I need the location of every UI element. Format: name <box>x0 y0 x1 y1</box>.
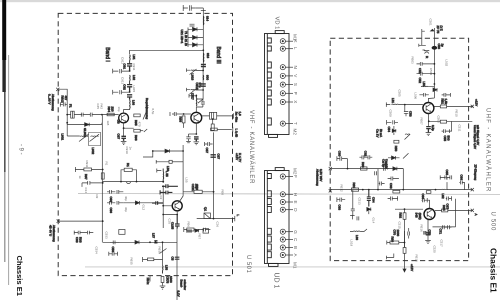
feedthrough cap dark <box>432 46 438 50</box>
capacitor C37 dark on riser <box>211 155 216 157</box>
pin F <box>280 174 285 179</box>
terminal osc exit T-bar <box>234 216 236 221</box>
terminal x abstimm2 <box>57 220 60 223</box>
pin A <box>280 252 285 257</box>
svg-text:T: T <box>293 122 298 125</box>
comp row161 <box>169 160 172 163</box>
junction T1 emitter <box>123 127 125 129</box>
svg-text:U 501: U 501 <box>245 255 251 273</box>
capacitor C60 <box>337 156 348 168</box>
svg-text:0,5p: 0,5p <box>431 125 435 131</box>
capacitor C44u T-bar <box>387 120 398 125</box>
svg-text:C913: C913 <box>121 77 125 85</box>
pin B <box>280 245 285 250</box>
capacitor C2el <box>186 134 190 141</box>
pin E <box>280 199 285 204</box>
T-bar R51 <box>143 257 163 262</box>
capacitor C103 thick <box>201 65 206 67</box>
scan top edge shadow <box>0 0 500 2</box>
svg-text:C72: C72 <box>428 230 432 236</box>
svg-text:+12V: +12V <box>475 99 479 106</box>
wire entry to box <box>67 114 82 116</box>
resistor R5e vert <box>403 248 406 254</box>
junction rail a <box>102 169 104 171</box>
svg-text:9,1V: 9,1V <box>177 291 181 297</box>
svg-text:Chassis E1: Chassis E1 <box>489 248 499 293</box>
capacitor above tank <box>189 94 196 98</box>
screen box L91 <box>89 133 101 146</box>
svg-text:C36: C36 <box>216 222 220 228</box>
svg-text:R510: R510 <box>455 110 459 118</box>
capacitor C52 pair lower <box>109 252 118 256</box>
bandfilter box output <box>210 112 217 119</box>
RL pair loop wires <box>121 170 137 182</box>
capacitor C105 thick <box>127 64 132 71</box>
resistor R21 below base <box>182 116 185 123</box>
resistor R5c <box>442 209 448 212</box>
junction riser <box>162 241 164 243</box>
svg-text:0...30 V: 0...30 V <box>48 94 52 104</box>
wire R45 right exit <box>429 120 473 122</box>
svg-text:R507: R507 <box>420 118 424 126</box>
capacitor C2b bottom <box>205 142 213 146</box>
junction out <box>212 118 214 120</box>
svg-text:L: L <box>293 47 298 50</box>
terminal ZF out T-bar <box>232 113 234 118</box>
T-bar ant left2 <box>419 44 426 47</box>
pin P <box>280 91 285 96</box>
capacitor C51 <box>110 241 120 245</box>
ground T1 emitter <box>121 141 127 144</box>
capacitor C62 pair <box>359 155 372 159</box>
pin V <box>280 73 285 78</box>
resistor RrowB <box>351 188 358 191</box>
loop C65 <box>445 177 447 189</box>
box comp bottom <box>119 230 125 235</box>
ground T2 emitter <box>194 142 200 145</box>
capacitor Cant2 <box>417 72 435 76</box>
capacitor C5g <box>408 228 410 239</box>
junction bus c <box>368 189 370 191</box>
wire xtal row <box>143 151 183 157</box>
svg-text:R62: R62 <box>399 213 403 219</box>
svg-text:mit Signal 4,3V: mit Signal 4,3V <box>476 125 480 145</box>
junction abstimm2 <box>102 220 104 222</box>
terminal x abstimm uhf row A <box>329 167 332 170</box>
capacitor pair Cb <box>107 201 123 205</box>
wire osc collector riser <box>180 145 184 202</box>
junction bus f <box>435 189 437 191</box>
UHF tuner dashed enclosure <box>330 38 468 260</box>
svg-text:R60: R60 <box>361 162 365 168</box>
ground T4 <box>426 133 432 136</box>
branch2 trimmer coil L917 <box>190 89 203 95</box>
resistor R43u <box>394 140 399 143</box>
svg-text:R518: R518 <box>415 255 419 263</box>
svg-text:R516: R516 <box>420 225 424 233</box>
svg-text:1p: 1p <box>440 44 444 48</box>
svg-text:R61: R61 <box>352 183 356 189</box>
svg-text:916: 916 <box>206 53 210 58</box>
connector upper top tab <box>275 31 284 34</box>
wire T3 base left <box>163 186 172 228</box>
wire BIII main rail <box>202 11 204 72</box>
pin G <box>280 229 285 234</box>
svg-text:Cn 1V: Cn 1V <box>376 129 380 137</box>
junction ant b <box>434 73 436 75</box>
svg-text:UB: UB <box>117 120 121 124</box>
svg-text:GL4: GL4 <box>372 218 376 224</box>
diode drop dark <box>367 208 371 215</box>
resistor R41 <box>194 190 202 193</box>
resistor R32 on rail <box>101 173 104 179</box>
VHF tuner dashed enclosure <box>58 13 232 275</box>
diode D51 <box>135 241 139 245</box>
coil L106 above T1 <box>129 100 131 110</box>
emitter T1 wire <box>123 123 125 128</box>
wire R21 down <box>183 123 185 128</box>
junction T5 base rail <box>404 208 406 210</box>
wire abstimm2 <box>58 220 102 222</box>
connector upper bottom tab <box>269 134 278 137</box>
wire osc base link <box>123 202 163 204</box>
resistor R42 bottom <box>187 228 194 231</box>
wire x177 riser down <box>176 228 178 300</box>
svg-text:Abstimmung: Abstimmung <box>52 225 56 242</box>
resistor R12 right <box>134 114 140 117</box>
capacitor pair em row <box>441 225 451 229</box>
svg-text:C934: C934 <box>95 247 99 255</box>
resistor R24 out2 <box>211 128 218 131</box>
pin L <box>280 46 285 51</box>
junction T2 base <box>183 113 185 115</box>
junction bus a <box>149 241 151 243</box>
svg-text:C63: C63 <box>389 183 393 189</box>
svg-text:C517: C517 <box>440 240 444 248</box>
junction RL left <box>120 181 122 183</box>
scan left black bar <box>2 0 6 60</box>
comp top small caps row a <box>424 231 426 235</box>
trimmer arrow on riser <box>160 249 167 254</box>
svg-text:F1: F1 <box>69 104 73 108</box>
junction L34 <box>162 181 164 183</box>
svg-text:R86: R86 <box>178 117 182 123</box>
svg-text:R94: R94 <box>107 107 111 113</box>
svg-text:1000: 1000 <box>396 230 400 237</box>
svg-text:1000: 1000 <box>169 276 173 283</box>
wire T5 emitter <box>427 219 429 241</box>
pin C <box>280 237 285 242</box>
wire drop x352.8 <box>352 190 354 209</box>
faint scan line A <box>78 193 500 196</box>
svg-text:C50: C50 <box>437 44 441 50</box>
svg-text:VD 1: VD 1 <box>274 17 280 30</box>
wire ant left drop <box>421 34 423 45</box>
svg-text:220: 220 <box>111 107 115 112</box>
wire riser x162 <box>162 242 164 265</box>
junction +12V <box>471 106 473 108</box>
coil ant <box>423 50 430 51</box>
svg-text:C515: C515 <box>398 222 402 230</box>
comp row box <box>203 229 209 233</box>
svg-text:G: G <box>293 230 298 234</box>
coil T2 tank <box>195 95 197 107</box>
capacitor C101 top left <box>183 5 195 11</box>
wire T4 emitter <box>427 114 429 127</box>
wire T2 base <box>176 113 191 115</box>
wire T4 collector up <box>428 84 434 103</box>
wire T1 vertical rail <box>101 115 103 243</box>
svg-text:L916: L916 <box>191 74 195 81</box>
wire T2 collector up <box>195 107 197 113</box>
svg-text:C99: C99 <box>109 208 113 214</box>
capacitor T2 base left <box>170 112 176 116</box>
coil L51 riser <box>162 266 164 274</box>
wire emitter right <box>124 128 134 136</box>
resistor R51 <box>148 258 154 261</box>
svg-text:C65: C65 <box>445 170 449 176</box>
coil L102 <box>202 53 205 62</box>
svg-text:N: N <box>293 66 298 69</box>
wire R44 right <box>434 105 473 107</box>
coil L105 <box>129 75 131 84</box>
diode Dif <box>388 156 400 160</box>
capacitor riser378 <box>375 171 377 175</box>
ground below box <box>160 286 166 289</box>
capacitor C43u below base <box>404 105 408 117</box>
svg-text:R57: R57 <box>198 234 202 240</box>
branch1 trimmer coil L916 <box>190 69 203 75</box>
svg-text:L56: L56 <box>166 166 170 171</box>
junction entry rail2 <box>66 122 68 124</box>
terminal out2 T-bar <box>232 127 234 132</box>
comp row above bus <box>186 229 199 232</box>
terminal x +12V <box>471 105 474 108</box>
capacitor C63 below bus <box>337 197 345 202</box>
resistor R44 collector <box>440 105 446 108</box>
svg-text:R63: R63 <box>391 237 395 243</box>
transistor T3 <box>172 201 182 211</box>
junction rail br2 <box>202 89 204 91</box>
svg-text:4B 4V U: 4B 4V U <box>49 225 53 236</box>
wire T1 collector <box>124 110 130 114</box>
diode D101 <box>193 27 204 31</box>
svg-text:Un 30V: Un 30V <box>385 159 389 169</box>
svg-text:P: P <box>293 92 298 95</box>
svg-text:16p: 16p <box>117 107 121 112</box>
lower connector pins <box>280 174 293 258</box>
svg-text:L57: L57 <box>152 233 156 238</box>
wire R45 left <box>428 120 430 122</box>
capacitor C1e thick <box>121 136 126 141</box>
coil T4 base <box>392 103 423 105</box>
arrow small right <box>144 129 147 132</box>
svg-text:4k7: 4k7 <box>64 96 68 101</box>
diode D902 <box>85 123 90 127</box>
capacitor C54 <box>88 231 94 235</box>
svg-text:30p: 30p <box>124 207 128 212</box>
connector upper contact notches <box>267 38 271 125</box>
arrow bottom exit <box>403 269 406 272</box>
wire row161 b <box>172 161 183 163</box>
capacitor C45 left edge dark <box>152 201 163 205</box>
capacitor C42u pair right <box>442 93 451 97</box>
svg-text:L902: L902 <box>91 148 95 155</box>
T-bar R42 <box>184 227 201 232</box>
box tuning unit left of T1 <box>71 111 75 118</box>
svg-text:R42: R42 <box>100 104 104 110</box>
svg-text:L93: L93 <box>132 100 136 105</box>
svg-text:R97: R97 <box>84 174 88 180</box>
svg-text:L92: L92 <box>132 75 136 80</box>
svg-text:F: F <box>293 175 298 178</box>
coil rail vertical <box>202 75 204 80</box>
scan left fading line <box>4 92 6 172</box>
svg-text:C97: C97 <box>117 134 121 140</box>
svg-text:71 IB 21 IB: 71 IB 21 IB <box>184 31 188 46</box>
svg-text:Chassis E1: Chassis E1 <box>15 256 24 297</box>
svg-text:L506: L506 <box>414 93 418 100</box>
capacitor pair drop <box>351 209 355 215</box>
T-bar C52 <box>117 252 119 256</box>
capacitor C44 bottom <box>200 228 210 232</box>
capacitor C109 thick <box>127 95 132 100</box>
capacitor C107 thick <box>127 85 132 92</box>
wire T2 emitter <box>195 123 197 134</box>
svg-text:R58: R58 <box>221 190 225 196</box>
svg-text:R912: R912 <box>61 96 65 104</box>
junction riser213 <box>213 191 215 193</box>
diode D102 <box>193 36 204 40</box>
diode D41 dark <box>433 88 437 92</box>
wire T2 out <box>202 115 232 117</box>
wire rail x404 <box>404 209 406 247</box>
capacitor C43 below T3 <box>175 215 180 229</box>
svg-text:L62: L62 <box>441 194 445 199</box>
wire R52 <box>162 283 164 286</box>
capacitor C4e <box>426 127 431 133</box>
svg-text:R56: R56 <box>187 222 191 228</box>
svg-text:L519: L519 <box>350 240 354 247</box>
svg-text:C520: C520 <box>433 246 437 254</box>
svg-text:ZF-Eingang: ZF-Eingang <box>474 165 478 181</box>
upper connector pins <box>280 39 293 127</box>
capacitor C34 T <box>157 169 162 173</box>
coil L34 right <box>162 169 164 183</box>
wire R23 <box>212 119 214 124</box>
svg-text:27p: 27p <box>198 83 202 88</box>
resistor Rant <box>425 52 430 54</box>
svg-text:R503: R503 <box>411 57 415 65</box>
coil L41 horiz <box>421 85 434 87</box>
svg-text:Abstimmung: Abstimmung <box>51 94 55 111</box>
svg-text:C37: C37 <box>217 154 221 160</box>
capacitor C55 on riser <box>175 257 180 259</box>
lower pin labels <box>293 168 299 269</box>
diode D103 <box>193 43 204 47</box>
wire T3 emitter <box>163 211 177 215</box>
svg-text:R1: R1 <box>105 162 109 166</box>
capacitor C66 <box>459 180 464 189</box>
svg-text:GL2: GL2 <box>142 205 146 211</box>
wire R41 <box>183 191 214 193</box>
pin S <box>280 82 285 87</box>
capacitor T5 em <box>426 233 431 235</box>
capacitor C915 thick <box>201 84 206 86</box>
svg-text:L901: L901 <box>61 134 65 141</box>
svg-text:U 500: U 500 <box>490 212 496 232</box>
capacitor C31 <box>82 181 103 187</box>
capacitor C65 pair <box>440 175 452 179</box>
connector VO1/UO1 lower body <box>265 171 290 264</box>
faint scan line B <box>85 266 500 268</box>
capacitor C45u pair <box>442 122 452 133</box>
svg-text:1k8: 1k8 <box>106 121 110 126</box>
svg-text:E: E <box>293 201 298 204</box>
svg-text:L55: L55 <box>185 178 189 183</box>
capacitor C41 dark <box>162 184 178 188</box>
svg-text:C71: C71 <box>439 229 443 235</box>
capacitor C41u <box>419 93 428 97</box>
svg-text:R33: R33 <box>78 237 82 243</box>
capacitor C5b right <box>446 196 452 200</box>
svg-text:914: 914 <box>206 16 210 21</box>
svg-text:C919: C919 <box>125 147 129 155</box>
T-bar R5d <box>387 241 405 245</box>
wire osc exit <box>197 218 235 220</box>
transistor T2 <box>191 112 202 123</box>
wire R5e riser <box>404 231 406 269</box>
svg-text:C511: C511 <box>458 125 462 132</box>
junction bus e <box>402 189 404 191</box>
riser x378 <box>377 169 379 190</box>
svg-text:1n: 1n <box>128 147 132 151</box>
svg-text:C501: C501 <box>429 19 433 27</box>
junction T4 base <box>404 104 406 106</box>
resistor RrowA <box>361 167 368 170</box>
transistor T5 <box>424 209 435 220</box>
resistor R52 below box <box>161 277 164 283</box>
coil L91 adj <box>90 134 100 141</box>
pin D <box>280 207 285 212</box>
svg-text:L 0,4B: L 0,4B <box>234 129 238 138</box>
junction xtal row <box>152 150 154 152</box>
wire T1 base feed <box>102 114 119 116</box>
capacitor C102 <box>190 24 195 26</box>
riser x403 <box>402 169 404 190</box>
terminal x osc out <box>471 209 474 212</box>
junction C41 <box>162 185 164 187</box>
terminal x abstimm row B <box>329 189 332 192</box>
branch1 T-bar <box>187 68 191 72</box>
terminal T-bar antenna BIII <box>201 10 206 12</box>
junction bus b <box>362 189 364 191</box>
resistor Rif2 below bus <box>426 191 431 194</box>
junction bus b <box>155 241 157 243</box>
arrow regel in <box>143 108 148 120</box>
capacitor C106 with T-bar <box>113 69 130 74</box>
wire diode row <box>67 123 102 125</box>
svg-text:R2: R2 <box>95 195 99 199</box>
resistor R5d horiz <box>390 241 399 244</box>
wire out2 <box>217 129 232 131</box>
junction rail br1 <box>202 70 204 72</box>
svg-text:Band I: Band I <box>104 47 110 61</box>
svg-text:C45: C45 <box>96 104 100 110</box>
svg-text:0,5p: 0,5p <box>151 109 155 115</box>
RL pair coil L33 <box>126 182 130 184</box>
diode D42 vert <box>392 126 396 135</box>
